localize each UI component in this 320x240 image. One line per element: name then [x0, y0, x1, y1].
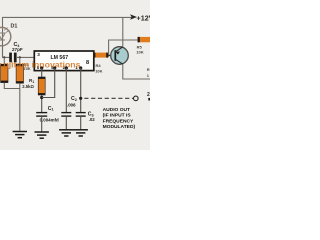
svg-text:D1: D1 [11, 24, 18, 30]
wire R1 bottom [41, 95, 43, 112]
wire R2/R3 bottoms to ground [4, 83, 19, 131]
wire C1 to ground [41, 116, 43, 131]
ground (C1) [35, 132, 49, 138]
node R3 top junction [19, 56, 21, 58]
svg-text:2.5kΩ: 2.5kΩ [22, 84, 34, 89]
wire collector to +12V rail [122, 17, 124, 46]
wire emitter down and right [123, 64, 150, 79]
svg-text:10K: 10K [136, 50, 143, 55]
svg-text:(IF INPUT IS: (IF INPUT IS [103, 113, 132, 119]
label AUDIO OUT block [103, 107, 136, 130]
svg-text:0.004mfd: 0.004mfd [40, 118, 59, 123]
svg-text:10K: 10K [95, 68, 102, 73]
svg-text:.02: .02 [89, 117, 96, 122]
svg-text:R: R [147, 67, 150, 72]
wire C3 to ground [80, 116, 82, 129]
wire pin8 to R4 [93, 54, 95, 56]
wire fragment right edge [148, 98, 150, 101]
ground (left) [13, 132, 27, 138]
svg-text:.006: .006 [67, 102, 76, 107]
svg-text:MODULATED): MODULATED) [103, 124, 136, 130]
ground (C3) [74, 130, 88, 136]
capacitor C3 [76, 113, 86, 117]
+12V arrow [130, 14, 137, 19]
node R2 top junction [3, 56, 5, 58]
capacitor C4 [9, 53, 16, 63]
wire R4 to base [108, 54, 115, 56]
node output terminal [134, 96, 139, 101]
node C3 audio tap [79, 97, 82, 100]
svg-text:AUDIO OUT: AUDIO OUT [103, 107, 130, 113]
ground (C2) [59, 130, 73, 136]
resistor R2 [1, 57, 8, 82]
resistor R5 [138, 37, 151, 42]
IC U1 LM 567 [34, 51, 94, 71]
wire D1 to C4 elbow [3, 46, 10, 58]
wire pin to R1 [41, 68, 43, 77]
wire +12V top rail [3, 17, 134, 57]
node base junction [108, 54, 110, 56]
wire junction to pin wire [42, 68, 55, 98]
resistor R1 [38, 77, 45, 95]
wire pin to C3 [80, 68, 82, 112]
wire C4 to IC pin3 [16, 56, 34, 58]
svg-text:2: 2 [147, 92, 150, 98]
wire C2 to ground [65, 116, 67, 129]
transistor Q1 [111, 47, 129, 65]
resistor R4 [93, 53, 108, 58]
pin dots bottom of IC [40, 66, 43, 69]
node R1/C1 junction [40, 96, 43, 99]
svg-text:8: 8 [86, 60, 89, 66]
resistor R3 [16, 57, 23, 83]
capacitor C2 [61, 113, 71, 117]
wire pin to C2 [65, 68, 67, 112]
svg-text:3: 3 [37, 52, 40, 57]
svg-text:27pF: 27pF [12, 47, 23, 52]
svg-text:+12V: +12V [137, 13, 151, 22]
svg-text:FREQUENCY: FREQUENCY [103, 118, 134, 124]
wire base junction to R5 [109, 40, 138, 55]
capacitor C1 [36, 113, 47, 117]
wire dashed audio out [84, 97, 133, 99]
photodiode D1 [0, 27, 11, 45]
